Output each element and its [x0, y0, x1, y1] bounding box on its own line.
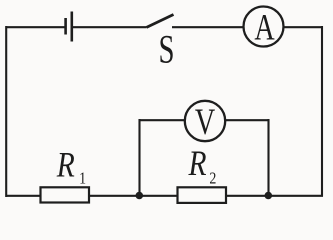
svg-text:R: R [56, 146, 75, 185]
wire top: left corner to battery [6, 26, 66, 28]
wire bottom: R2 to right corner [226, 195, 323, 197]
wire top: ammeter to right corner [284, 26, 323, 28]
wire left vertical [5, 26, 7, 197]
label R2 [188, 144, 217, 187]
wire right vertical [321, 26, 323, 197]
node junction dot left [136, 192, 144, 200]
voltmeter U2 circle [185, 101, 225, 141]
node junction dot right [265, 192, 273, 200]
battery cell [66, 12, 72, 42]
resistor R2 box [178, 187, 227, 203]
wire bottom [6, 195, 41, 197]
voltmeter loop top wire right [226, 119, 270, 121]
voltmeter loop top wire left [139, 119, 186, 121]
svg-text:V: V [195, 102, 216, 143]
svg-text:A: A [254, 8, 275, 49]
wire top: switch to ammeter [172, 26, 244, 28]
wire top: battery to switch [73, 26, 147, 28]
voltmeter loop right vertical wire [267, 119, 269, 196]
switch S blade [147, 15, 174, 28]
ammeter U1 circle [244, 7, 284, 47]
svg-text:S: S [158, 27, 174, 72]
svg-text:2: 2 [209, 169, 216, 188]
svg-text:1: 1 [79, 169, 86, 188]
voltmeter loop left vertical wire [138, 119, 140, 196]
wire bottom: R1 to node [89, 195, 177, 197]
resistor R1 box [41, 187, 90, 202]
label R1 [56, 146, 86, 188]
svg-text:R: R [188, 144, 207, 183]
